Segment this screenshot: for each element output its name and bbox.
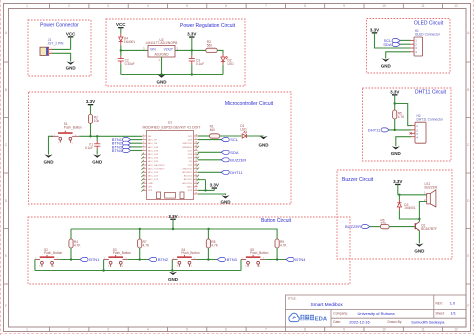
svg-text:Button Circuit: Button Circuit (261, 218, 292, 224)
svg-text:1: 1 (26, 328, 28, 332)
wire buzzer pin2 down to node (419, 202, 426, 220)
net label BTN3 (217, 257, 237, 262)
svg-text:7: 7 (265, 328, 267, 332)
svg-text:3: 3 (107, 4, 109, 8)
push button S4 (172, 255, 196, 267)
svg-text:Drawn By:: Drawn By: (388, 320, 403, 324)
svg-text:Date:: Date: (333, 320, 341, 324)
pin marks S2 (35, 258, 57, 268)
svg-text:32: 32 (195, 156, 197, 158)
svg-text:GND: GND (187, 186, 192, 188)
wire R7 bottom stem (139, 248, 141, 260)
wire C1 to GND (96, 146, 98, 149)
wire J1 pin1 to VCC (52, 48, 71, 50)
junction node R7 top (139, 228, 141, 230)
svg-text:36: 36 (195, 142, 197, 144)
wire R9 top stem (276, 229, 278, 239)
pin numbers U1 left (143, 135, 145, 191)
wire R8 bottom stem (207, 248, 209, 260)
wire GND pin mcu (198, 194, 226, 195)
svg-text:1: 1 (143, 135, 144, 137)
wire emitter to GND (418, 231, 420, 244)
svg-text:7: 7 (265, 4, 267, 8)
svg-text:10: 10 (143, 167, 145, 169)
svg-text:9: 9 (343, 328, 345, 332)
net label BUZZER flag (345, 224, 370, 229)
svg-text:3.3V: 3.3V (86, 99, 95, 104)
ground GND D1 (259, 136, 270, 148)
svg-text:ADC/RX2: ADC/RX2 (182, 171, 192, 174)
svg-text:ADC_VN: ADC_VN (148, 142, 157, 145)
diode D4 (119, 37, 123, 46)
svg-text:26: 26 (195, 178, 197, 180)
svg-text:ADC_DAC2/D26: ADC_DAC2/D26 (148, 164, 165, 167)
wire C2 to rail (120, 61, 122, 64)
svg-text:3.3V: 3.3V (210, 183, 219, 188)
svg-text:4.7K: 4.7K (398, 115, 405, 119)
wire pin4 to GND (396, 137, 412, 147)
svg-text:2: 2 (57, 258, 58, 260)
wire 3.3V mcu stem (213, 188, 215, 191)
svg-text:SDA: SDA (230, 150, 239, 155)
svg-text:Push_Button: Push_Button (181, 251, 199, 255)
svg-text:VCC: VCC (66, 31, 76, 36)
wire 3.3V to R2 (90, 104, 92, 114)
svg-text:LED: LED (228, 62, 235, 66)
svg-text:28: 28 (195, 171, 197, 173)
svg-text:4.7K: 4.7K (143, 244, 150, 248)
section box Power Connector (28, 20, 91, 76)
net label SDA (383, 42, 400, 47)
wire DHT11 flag to pin2 (389, 129, 411, 131)
mcu right no-connect slashes (197, 142, 199, 184)
svg-text:REV:: REV: (436, 301, 443, 305)
ground GND buttons (168, 272, 179, 282)
pin marks S5 (242, 258, 264, 268)
svg-text:2: 2 (126, 258, 127, 260)
wire diode top stub (398, 195, 400, 200)
svg-text:11: 11 (143, 171, 145, 173)
svg-text:BUZZER: BUZZER (425, 186, 438, 190)
net flag 3.3V OLED (370, 27, 379, 33)
svg-text:ADC_D33: ADC_D33 (148, 157, 159, 160)
svg-text:BTN1: BTN1 (89, 257, 100, 262)
canvas page edge dashed right (472, 0, 474, 335)
svg-text:VIN: VIN (148, 186, 152, 188)
wire diode bottom to node (398, 207, 400, 210)
net label SCL mcu (221, 137, 239, 142)
pin marks S4 (173, 258, 195, 268)
svg-text:3: 3 (143, 142, 144, 144)
junction node R4 bottom (70, 258, 72, 260)
push button S5 (241, 255, 265, 267)
svg-text:Smart Medibox: Smart Medibox (311, 302, 344, 308)
regulator U2 (148, 45, 175, 57)
wire R2 to EN wire (90, 123, 92, 136)
svg-text:4: 4 (143, 145, 144, 147)
svg-text:11: 11 (421, 328, 425, 332)
svg-text:B: B (467, 88, 469, 92)
svg-text:6: 6 (143, 153, 144, 155)
svg-text:11: 11 (421, 4, 425, 8)
svg-text:16: 16 (143, 189, 145, 191)
ground GND DHT11 (391, 146, 402, 156)
svg-text:GND: GND (414, 248, 425, 253)
svg-text:3: 3 (107, 328, 109, 332)
wire BTN1 to pin (131, 139, 143, 141)
svg-text:10k: 10k (94, 119, 100, 123)
frame column ticks top (50, 4, 443, 9)
wire 3v3 bundle vertical (198, 180, 206, 191)
capacitor C2 (118, 59, 124, 61)
wire S5 left drop (240, 260, 242, 271)
junction node R8 top (207, 228, 209, 230)
svg-text:BTN3: BTN3 (227, 257, 238, 262)
wire 3.3V stem to VOUT wire (191, 37, 193, 51)
svg-text:BUZZER: BUZZER (230, 157, 246, 162)
wire node to VIN (121, 49, 148, 51)
svg-text:DHT11: DHT11 (230, 170, 243, 175)
wire S4 left drop (171, 260, 173, 271)
ground GND C1 (92, 154, 103, 164)
svg-text:University of Ruhuna: University of Ruhuna (358, 311, 396, 316)
svg-text:4: 4 (147, 4, 149, 8)
resistor R5 (393, 110, 397, 119)
net label DHT11 flag (368, 127, 389, 132)
wire S3 to BTN2 flag (128, 259, 149, 261)
wire GND stem buttons (172, 271, 174, 272)
wire top rail buttons (71, 228, 278, 230)
net label BTN2 (148, 257, 168, 262)
pin marks S3 (104, 258, 126, 268)
wire 3.3V stem buttons (172, 219, 174, 229)
mcu right pin stubs (194, 136, 198, 194)
svg-text:Push_Button: Push_Button (113, 251, 131, 255)
svg-text:Sheet:: Sheet: (436, 311, 445, 315)
wire node to C3 (191, 50, 193, 55)
wire 3V3 pin to flag (198, 189, 215, 191)
section box Microcontroller Circuit (29, 92, 292, 204)
svg-text:560: 560 (207, 43, 213, 47)
svg-text:5: 5 (143, 149, 144, 151)
wire top rail buzzer (398, 194, 427, 196)
mcu left pin names (148, 136, 165, 192)
canvas page edge dashed bottom (0, 333, 474, 335)
wire VOUT to R3 (175, 49, 206, 51)
mcu left no-connect slashes (141, 153, 143, 192)
svg-text:0.1uF: 0.1uF (85, 146, 93, 150)
svg-text:2: 2 (75, 135, 76, 137)
svg-text:ADC_D35: ADC_D35 (148, 149, 159, 152)
resistor R9 (275, 239, 279, 248)
wire BTN3 to pin (131, 146, 143, 148)
svg-text:4.7K: 4.7K (211, 244, 218, 248)
wire 3.3V stem buzzer (397, 184, 399, 195)
mcu right pin names (182, 136, 193, 192)
svg-text:24: 24 (195, 185, 197, 187)
svg-text:LM1117T-ADJ/NOPB: LM1117T-ADJ/NOPB (146, 41, 178, 45)
svg-text:23: 23 (195, 189, 197, 191)
wire VCC to D4 (120, 27, 122, 33)
buzzer LS1 (427, 190, 436, 207)
wire D22 pin to R1 (198, 135, 210, 137)
junction node 3v3 bundle (204, 189, 206, 191)
junction node GND rail (160, 73, 162, 75)
svg-text:ADC_TOU7/D27: ADC_TOU7/D27 (148, 167, 165, 170)
resistor R2 (88, 114, 92, 123)
svg-text:4.7K: 4.7K (74, 244, 81, 248)
wire U2 pin1 to GND rail (161, 57, 163, 75)
svg-text:35: 35 (195, 145, 197, 147)
ground GND power connector (66, 61, 77, 70)
wire R1 to D1 (220, 135, 242, 137)
wire LED to rail (222, 61, 224, 64)
title block frame (286, 295, 467, 327)
svg-text:Push_Button: Push_Button (64, 126, 82, 130)
connector H1 (411, 37, 423, 56)
svg-text:2: 2 (194, 258, 195, 260)
svg-text:4: 4 (259, 266, 260, 268)
frame column ticks bottom (50, 327, 443, 332)
svg-text:GND: GND (92, 159, 103, 164)
svg-text:5: 5 (186, 4, 188, 8)
wire S5 to BTN4 flag (265, 259, 286, 261)
resistor R6 (380, 224, 389, 228)
svg-text:3: 3 (245, 266, 246, 268)
svg-text:1: 1 (35, 258, 36, 260)
svg-text:GND: GND (168, 277, 179, 282)
svg-text:38: 38 (195, 135, 197, 137)
svg-text:U1: U1 (168, 121, 172, 125)
svg-text:3: 3 (177, 266, 178, 268)
net flag VCC regulator (116, 22, 126, 28)
svg-text:ADC_D32: ADC_D32 (148, 153, 159, 156)
svg-text:34: 34 (195, 149, 197, 151)
wire R8 top stem (207, 229, 209, 239)
connector H2 (412, 122, 427, 143)
svg-text:1: 1 (173, 258, 174, 260)
wire D1 to GND (247, 135, 264, 137)
svg-text:ADC/D4: ADC/D4 (184, 175, 193, 178)
svg-text:22: 22 (195, 193, 197, 195)
LED D2 (221, 56, 228, 61)
svg-text:4: 4 (191, 266, 192, 268)
wire S2 to BTN1 flag (59, 259, 80, 261)
net flag 3.3V regulator (187, 32, 196, 38)
canvas page edge dashed left (0, 0, 2, 335)
net flag 3.3V buttons (168, 214, 177, 220)
svg-text:TITLE:: TITLE: (288, 296, 297, 300)
wire C3 to rail (191, 61, 193, 64)
LED D1 (242, 131, 247, 138)
mcu U1 body (147, 131, 194, 200)
svg-text:GND: GND (66, 66, 77, 71)
wire R4 top stem (70, 229, 72, 239)
ground GND mcu (221, 195, 232, 204)
svg-text:ADC_D12: ADC_D12 (148, 175, 159, 178)
svg-text:2: 2 (68, 328, 70, 332)
svg-text:7: 7 (143, 156, 144, 158)
svg-text:15: 15 (143, 185, 145, 187)
svg-text:ADC_VP: ADC_VP (148, 139, 157, 142)
section box Power Regulation Circuit (106, 19, 245, 86)
junction node C3 rail (191, 73, 193, 75)
svg-text:460: 460 (210, 128, 216, 132)
svg-text:0.33uF: 0.33uF (125, 62, 135, 66)
net label BTN1 (80, 257, 100, 262)
junction node diode top (398, 194, 400, 196)
wire R3 to LED (217, 50, 223, 53)
net label BTN2 mcu (112, 141, 131, 146)
svg-text:33: 33 (195, 153, 197, 155)
svg-text:F: F (467, 304, 469, 308)
wire R7 top stem (139, 229, 141, 239)
ground GND buzzer (414, 243, 425, 253)
pin numbers U1 right (195, 135, 197, 195)
svg-text:14: 14 (143, 182, 145, 184)
svg-text:Sumudith Sadeepa: Sumudith Sadeepa (411, 320, 445, 325)
svg-text:3: 3 (108, 266, 109, 268)
mcu left pin stubs (142, 136, 146, 190)
svg-text:BUZZER: BUZZER (345, 224, 361, 229)
mcu module pads (157, 192, 185, 199)
svg-text:EN: EN (148, 136, 151, 138)
wire left GND drop (49, 136, 54, 154)
svg-text:2: 2 (263, 258, 264, 260)
svg-text:0.1uF: 0.1uF (196, 62, 204, 66)
svg-text:4: 4 (53, 266, 54, 268)
net label DHT11 mcu (221, 170, 243, 175)
svg-text:3.3V: 3.3V (168, 214, 177, 219)
svg-text:ADJ/GND: ADJ/GND (155, 52, 170, 56)
junction node data (394, 129, 396, 131)
wire BUZZER flag to R6 (370, 226, 381, 228)
resistor R8 (206, 239, 210, 248)
wire BTN4 to pin (131, 150, 143, 152)
svg-text:GND: GND (44, 159, 55, 164)
net flag 3.3V mcu (210, 183, 219, 189)
svg-text:F: F (5, 304, 7, 308)
svg-text:GND: GND (148, 183, 153, 185)
svg-text:MODIFIED_ESP32-DEVKIT V1 DOIT: MODIFIED_ESP32-DEVKIT V1 DOIT (143, 125, 202, 129)
svg-text:3.3V: 3.3V (187, 32, 196, 37)
wire R4 bottom stem (70, 248, 72, 260)
section box Buzzer Circuit (337, 170, 452, 259)
svg-text:1: 1 (104, 258, 105, 260)
wire R6 to base (389, 226, 415, 228)
capacitor C1 (94, 144, 100, 146)
svg-text:SDA: SDA (383, 42, 392, 47)
svg-text:10: 10 (382, 4, 386, 8)
svg-text:4: 4 (72, 143, 73, 145)
wire SDA to pin2 (400, 43, 410, 45)
svg-text:1: 1 (54, 135, 55, 137)
ground GND regulator (157, 74, 168, 84)
svg-text:EDA: EDA (315, 317, 328, 323)
svg-text:3.3V: 3.3V (390, 89, 399, 94)
svg-text:4.7K: 4.7K (280, 244, 287, 248)
svg-text:1/1: 1/1 (451, 311, 456, 316)
svg-text:SCL: SCL (230, 137, 239, 142)
frame row ticks left (4, 62, 9, 284)
wire to SDA flag (198, 151, 221, 153)
wire to SCL flag (198, 139, 221, 141)
net flag 3.3V DHT11 (390, 89, 399, 95)
ground GND S1 left (44, 154, 55, 164)
transistor Q1 (415, 222, 419, 231)
svg-text:Buzzer Circuit: Buzzer Circuit (342, 177, 374, 183)
net label BTN3 mcu (112, 144, 131, 149)
section box Button Circuit (28, 217, 350, 284)
svg-text:BTN2: BTN2 (158, 257, 169, 262)
wire R9 bottom stem (276, 248, 278, 260)
svg-text:10: 10 (382, 328, 386, 332)
svg-text:25: 25 (195, 182, 197, 184)
net label BUZZER mcu (221, 157, 246, 162)
svg-text:3.3V: 3.3V (393, 179, 402, 184)
section box DHT11 Circuit (363, 88, 452, 161)
wire to BUZZER flag (198, 159, 221, 161)
wire SCL to pin1 (400, 39, 410, 41)
svg-text:VOUT: VOUT (164, 48, 173, 52)
wire to DHT11 flag (198, 171, 221, 173)
wire S3 left drop (103, 260, 105, 271)
svg-text:30: 30 (195, 164, 197, 166)
wire pin4 to GND (386, 52, 411, 59)
svg-text:DHT11 Connector: DHT11 Connector (417, 118, 444, 122)
wire S4 to BTN3 flag (197, 259, 218, 261)
svg-text:3: 3 (39, 266, 40, 268)
svg-text:ADC/D2: ADC/D2 (184, 178, 193, 181)
svg-text:BC547BTF: BC547BTF (421, 227, 437, 231)
wire bottom rail buttons (35, 270, 241, 272)
connector J1 (40, 47, 53, 55)
svg-text:3.3V: 3.3V (370, 27, 379, 32)
svg-text:B: B (5, 88, 7, 92)
svg-text:1: 1 (242, 258, 243, 260)
svg-text:Push_Button: Push_Button (250, 251, 268, 255)
frame row ticks right (466, 62, 471, 284)
net label BTN4 (286, 257, 306, 262)
svg-text:1N4001: 1N4001 (404, 206, 415, 210)
wire VCC stem (70, 37, 72, 50)
svg-text:LED: LED (240, 128, 247, 132)
svg-text:6: 6 (225, 4, 227, 8)
svg-text:OLED Connector: OLED Connector (415, 33, 441, 37)
junction node collector (418, 218, 420, 220)
svg-text:GND/TX2: GND/TX2 (182, 168, 192, 170)
logo EasyEDA cloud (289, 313, 299, 321)
svg-text:31: 31 (195, 160, 197, 162)
svg-text:OLED Circuit: OLED Circuit (414, 21, 444, 27)
wire D4 to node (120, 46, 122, 56)
logo text EasyEDA (300, 315, 327, 323)
wire J1 pin2 to GND (52, 53, 71, 61)
svg-text:4: 4 (147, 328, 149, 332)
svg-text:Push_Button: Push_Button (44, 251, 62, 255)
net label SDA mcu (221, 150, 239, 155)
svg-text:1N4001: 1N4001 (124, 40, 135, 44)
svg-text:9: 9 (143, 164, 144, 166)
svg-text:1.0: 1.0 (450, 301, 456, 306)
svg-text:ADC_D34: ADC_D34 (148, 146, 159, 149)
resistor R7 (138, 239, 142, 248)
svg-text:Power Regulation Circuit: Power Regulation Circuit (180, 23, 236, 29)
svg-text:2: 2 (68, 4, 70, 8)
junction node VIN (120, 49, 122, 51)
svg-text:GND/TX0: GND/TX0 (182, 143, 192, 145)
svg-text:1: 1 (26, 4, 28, 8)
